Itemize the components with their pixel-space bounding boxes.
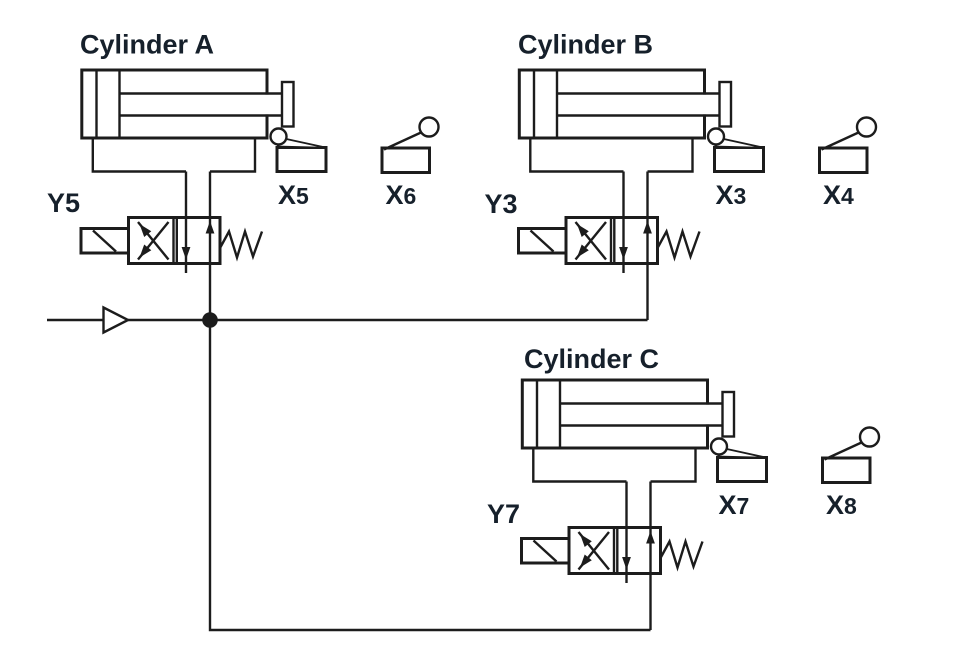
pipe cylinder A port A to valve (exhaust line) xyxy=(185,172,187,274)
cylinder C piston rod (white over body edge) xyxy=(560,405,723,425)
cylinder C port manifold right xyxy=(651,448,696,482)
valve Y5 body xyxy=(129,218,221,264)
cylinder B piston xyxy=(556,70,558,138)
limit switch X6 roller xyxy=(420,118,439,137)
limit switch X3 body xyxy=(715,148,764,172)
cylinder A port manifold right xyxy=(210,138,255,172)
cylinder A left end cap line xyxy=(95,70,97,138)
valve Y3 return spring xyxy=(658,232,700,258)
limit switch X6 body xyxy=(382,148,430,173)
svg-text:Cylinder A: Cylinder A xyxy=(80,30,214,60)
svg-text:X4: X4 xyxy=(823,180,854,210)
supply line to valve Y3 xyxy=(128,319,648,321)
valve Y3 solenoid xyxy=(519,229,567,254)
valve Y7 solenoid xyxy=(522,539,570,564)
limit switch X4 lever xyxy=(822,133,859,150)
limit switch X7 lever xyxy=(718,449,767,458)
cylinder C port manifold left xyxy=(533,448,626,482)
cylinder C rod-end cam plate xyxy=(723,392,735,437)
limit switch X4 roller xyxy=(857,118,876,137)
limit switch X8 roller xyxy=(860,428,879,447)
limit switch X5 body xyxy=(277,148,326,172)
valve Y3 position divider xyxy=(610,218,612,264)
cylinder B port manifold left xyxy=(530,138,623,172)
limit switch X3 lever xyxy=(715,139,764,148)
cylinder B port manifold right xyxy=(648,138,693,172)
valve Y7 position divider xyxy=(613,528,615,574)
svg-text:X8: X8 xyxy=(826,490,857,520)
valve Y7 body xyxy=(569,528,661,574)
svg-text:X6: X6 xyxy=(386,180,417,210)
valve Y3 crossed flow arrows xyxy=(576,222,607,260)
limit switch X5 lever xyxy=(278,139,327,148)
cylinder B piston rod (white over body edge) xyxy=(557,95,720,115)
cylinder B body xyxy=(519,70,704,138)
pipe cylinder C port B to valve (supply line) xyxy=(649,482,651,631)
valve Y7 crossed flow arrows xyxy=(579,532,610,570)
svg-text:X5: X5 xyxy=(278,180,309,210)
limit switch X5 roller xyxy=(271,129,287,145)
cylinder A body xyxy=(82,70,267,138)
supply flow arrow xyxy=(104,308,129,333)
valve Y7 return spring xyxy=(661,542,703,568)
svg-text:X3: X3 xyxy=(716,180,747,210)
pipe cylinder A port B to valve (supply line) xyxy=(209,172,211,321)
cylinder A port manifold left xyxy=(93,138,186,172)
limit switch X7 roller xyxy=(711,439,727,455)
valve Y5 return spring xyxy=(220,232,262,258)
junction node xyxy=(202,312,218,328)
pipe cylinder B port B to valve (supply line) xyxy=(646,172,648,321)
limit switch X4 body xyxy=(820,148,868,173)
cylinder B rod-end cam plate xyxy=(720,82,732,127)
cylinder C body xyxy=(522,380,707,448)
cylinder C left end cap line xyxy=(536,380,538,448)
valve Y5 crossed flow arrows xyxy=(138,222,169,260)
cylinder A piston rod (white over body edge) xyxy=(120,95,283,115)
svg-text:Cylinder B: Cylinder B xyxy=(518,30,653,60)
limit switch X3 roller xyxy=(708,129,724,145)
valve Y5 solenoid xyxy=(81,229,129,254)
cylinder A piston xyxy=(118,70,120,138)
cylinder C piston xyxy=(559,380,561,448)
svg-text:X7: X7 xyxy=(719,490,750,520)
svg-text:Cylinder C: Cylinder C xyxy=(524,344,659,374)
limit switch X8 lever xyxy=(825,443,862,460)
limit switch X8 body xyxy=(823,458,871,483)
svg-text:Y3: Y3 xyxy=(485,189,518,219)
cylinder B left end cap line xyxy=(533,70,535,138)
limit switch X6 lever xyxy=(384,133,421,150)
valve Y3 body xyxy=(566,218,658,264)
limit switch X7 body xyxy=(718,458,767,482)
svg-text:Y5: Y5 xyxy=(47,188,80,218)
valve Y5 position divider xyxy=(172,218,174,264)
pipe cylinder C port A to valve (exhaust line) xyxy=(625,482,627,584)
pipe cylinder B port A to valve (exhaust line) xyxy=(622,172,624,274)
supply line from source xyxy=(47,319,104,321)
branch line to valve Y7 xyxy=(210,320,651,630)
cylinder A rod-end cam plate xyxy=(282,82,294,127)
svg-text:Y7: Y7 xyxy=(487,499,520,529)
